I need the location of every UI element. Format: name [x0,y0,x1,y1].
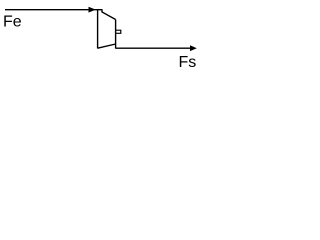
svg-text:Fe: Fe [3,13,22,30]
background [0,0,203,77]
component: hopper/funnel symbol, left edge [97,9,99,49]
arrowhead on input wire [89,7,96,13]
wire: input line Fe [5,9,102,11]
component: small spout tab on right edge [116,30,121,33]
component: hopper/funnel symbol, bottom slanted edge [98,44,116,48]
arrowhead on output wire [190,45,197,51]
component: hopper/funnel symbol, top slanted edge [102,9,116,19]
svg-text:Fs: Fs [179,54,197,71]
wire: output line Fs [116,47,191,49]
component: hopper/funnel symbol, right edge [115,20,117,49]
